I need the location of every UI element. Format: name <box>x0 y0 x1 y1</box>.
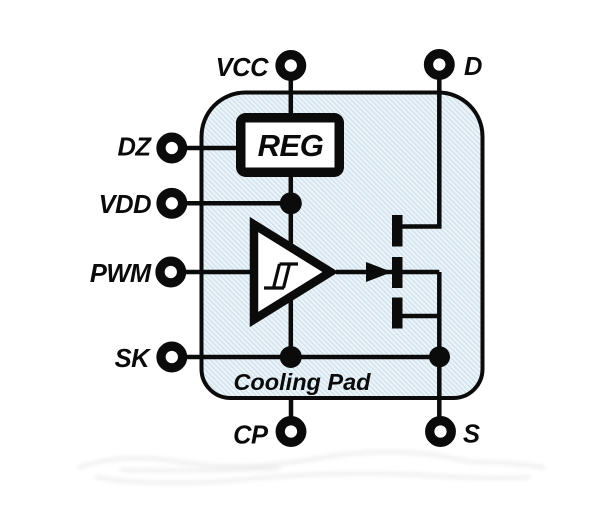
svg-text:VDD: VDD <box>99 191 151 219</box>
wire VCC to REG <box>289 66 294 116</box>
svg-text:CP: CP <box>233 422 269 450</box>
wire PWM to buffer <box>171 270 256 275</box>
svg-text:S: S <box>463 421 480 449</box>
svg-text:D: D <box>464 53 482 81</box>
op-amp buffer (schmitt driver) <box>254 225 331 320</box>
IC body (cooling pad outline) <box>202 93 483 399</box>
node VDD junction <box>280 192 302 214</box>
svg-text:DZ: DZ <box>118 134 153 162</box>
wire source contact <box>401 314 439 319</box>
hysteresis symbol <box>264 264 298 288</box>
transistor Q1 source bar <box>392 298 403 329</box>
pin D <box>429 54 451 76</box>
watermark smudge <box>78 452 545 483</box>
pin CP <box>280 421 302 443</box>
pin DZ <box>161 137 183 159</box>
node S junction <box>429 346 450 367</box>
wire D to drain <box>401 65 439 227</box>
wire SK rail <box>172 355 440 360</box>
svg-text:REG: REG <box>258 128 324 163</box>
transistor Q1 gate/body bar <box>392 257 403 288</box>
pin VDD <box>161 193 183 215</box>
svg-text:SK: SK <box>115 345 152 373</box>
gate arrow <box>366 262 392 282</box>
svg-text:Cooling Pad: Cooling Pad <box>233 369 371 395</box>
pin PWM <box>160 261 182 283</box>
pin S <box>430 421 452 443</box>
wire VDD to node <box>172 201 291 206</box>
wire CP stub <box>289 397 294 432</box>
svg-text:VCC: VCC <box>216 54 269 82</box>
svg-text:PWM: PWM <box>90 260 152 288</box>
pin SK <box>161 346 183 368</box>
wire buffer output to gate <box>336 270 397 275</box>
wire DZ to REG <box>172 146 238 151</box>
node SK junction <box>280 346 302 368</box>
wire body tie <box>401 270 439 275</box>
pin VCC <box>280 55 302 77</box>
transistor Q1 drain bar <box>392 215 403 247</box>
regulator U REG <box>241 118 340 173</box>
wire source to S pin <box>437 272 442 432</box>
wire REG bottom to SK rail <box>289 175 294 357</box>
